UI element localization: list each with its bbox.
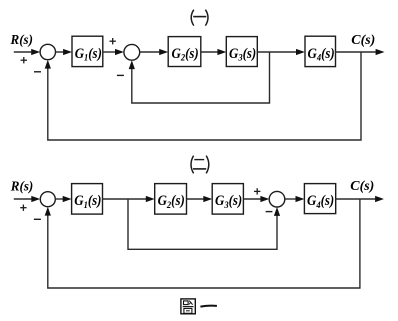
wire summer 2 to G4 (bottom) — [285, 198, 297, 200]
output arrowhead (top) — [376, 49, 385, 55]
wire summer 1 to G1 (bottom) — [55, 198, 63, 200]
svg-text:C(s): C(s) — [350, 179, 374, 194]
arrowhead up into summer 1 (bottom) — [45, 207, 51, 216]
minus sign at summer 2 (top) — [117, 74, 124, 76]
summing junction 1 (top) — [40, 44, 55, 59]
wire G3 to G4 with takeoff node (top) — [257, 51, 297, 53]
caption glyph 一 (one) — [200, 305, 217, 308]
svg-text:G3(s): G3(s) — [215, 193, 242, 211]
label (二) figure-2 heading — [191, 156, 209, 174]
wire G2 to G3 (bottom) — [187, 198, 205, 200]
plus sign at summer 1 (bottom) — [20, 205, 26, 211]
plus sign at summer 2 (bottom) — [254, 188, 260, 194]
block G4(s) (top) — [305, 36, 336, 66]
minus sign at summer 1 (bottom) — [34, 218, 41, 220]
svg-text:G1(s): G1(s) — [75, 46, 102, 64]
wire G4 to output C(s) (bottom) — [336, 198, 377, 200]
wire G1 to summer 2 (top) — [103, 51, 116, 53]
block G2(s) (top) — [168, 37, 201, 67]
arrowhead into G1 (top) — [63, 49, 72, 55]
block G2(s) (bottom) — [155, 184, 187, 215]
block G1(s) (top) — [72, 36, 103, 66]
summing junction 2 (bottom) — [269, 191, 285, 207]
svg-text:G4(s): G4(s) — [307, 193, 334, 211]
wire inner feedback loop (bottom): takeoff after G1 down, right, up into summer 2 — [128, 199, 277, 249]
minus sign at summer 1 (top) — [34, 71, 41, 73]
svg-text:G1(s): G1(s) — [74, 193, 101, 211]
wire outer feedback loop (bottom): takeoff after G4 down, left, up into summer 1 — [48, 199, 360, 288]
wire G4 to output C(s) (top) — [336, 51, 378, 53]
arrowhead into summer 2 (top) — [115, 49, 124, 55]
svg-text:G2(s): G2(s) — [172, 46, 199, 64]
arrowhead into G2 (top) — [159, 49, 168, 55]
wire inner feedback loop (top): takeoff after G3 down, left, up into summer 2 — [132, 52, 270, 103]
minus sign at summer 2 (bottom) — [266, 211, 273, 213]
arrowhead into summer 1 (top) — [31, 49, 40, 55]
label (一) figure-1 heading — [191, 10, 208, 26]
arrowhead into G1 (bottom) — [63, 196, 72, 202]
wire G2 to G3 (top) — [201, 51, 219, 53]
arrowhead into G4 (top) — [296, 49, 305, 55]
svg-text:G3(s): G3(s) — [229, 46, 256, 64]
arrowhead into G2 (bottom) — [146, 196, 155, 202]
arrowhead into summer 2 (bottom) — [260, 196, 269, 202]
output arrowhead (bottom) — [375, 196, 384, 202]
plus sign at summer 2 (top) — [110, 38, 116, 44]
arrowhead up into summer 1 (top) — [45, 60, 51, 69]
arrowhead up into summer 2 (top) — [129, 60, 135, 69]
svg-text:R(s): R(s) — [10, 179, 33, 194]
arrowhead into summer 1 (bottom) — [31, 196, 40, 202]
svg-text:G2(s): G2(s) — [158, 193, 185, 211]
wire G1 to G2 with takeoff node (bottom) — [103, 198, 147, 200]
summing junction 2 (top) — [124, 44, 140, 60]
block G3(s) (top) — [226, 37, 257, 67]
block G4(s) (bottom) — [304, 184, 335, 214]
svg-text:R(s): R(s) — [10, 33, 33, 48]
svg-text:C(s): C(s) — [351, 33, 375, 48]
arrowhead into G3 (bottom) — [203, 196, 212, 202]
wire summer 1 to G1 (top) — [56, 51, 65, 53]
summing junction 1 (bottom) — [40, 192, 55, 207]
arrowhead up into summer 2 (bottom) — [274, 207, 280, 216]
arrowhead into G3 (top) — [217, 49, 226, 55]
wire outer feedback loop (top): takeoff after G4 down, left, up into summer 1 — [48, 52, 361, 140]
wire summer 2 to G2 (top) — [140, 51, 161, 53]
plus sign at summer 1 (top) — [21, 57, 27, 63]
svg-text:G4(s): G4(s) — [308, 46, 335, 64]
arrowhead into G4 (bottom) — [296, 196, 305, 202]
wire G3 to summer 2 (bottom) — [243, 198, 261, 200]
block G3(s) (bottom) — [212, 184, 243, 215]
block G1(s) (bottom) — [72, 184, 103, 215]
caption glyph 圖 (figure) — [181, 299, 195, 314]
wire input R to summer 1 (bottom) — [14, 198, 33, 200]
wire input R to summer 1 (top) — [14, 51, 33, 53]
